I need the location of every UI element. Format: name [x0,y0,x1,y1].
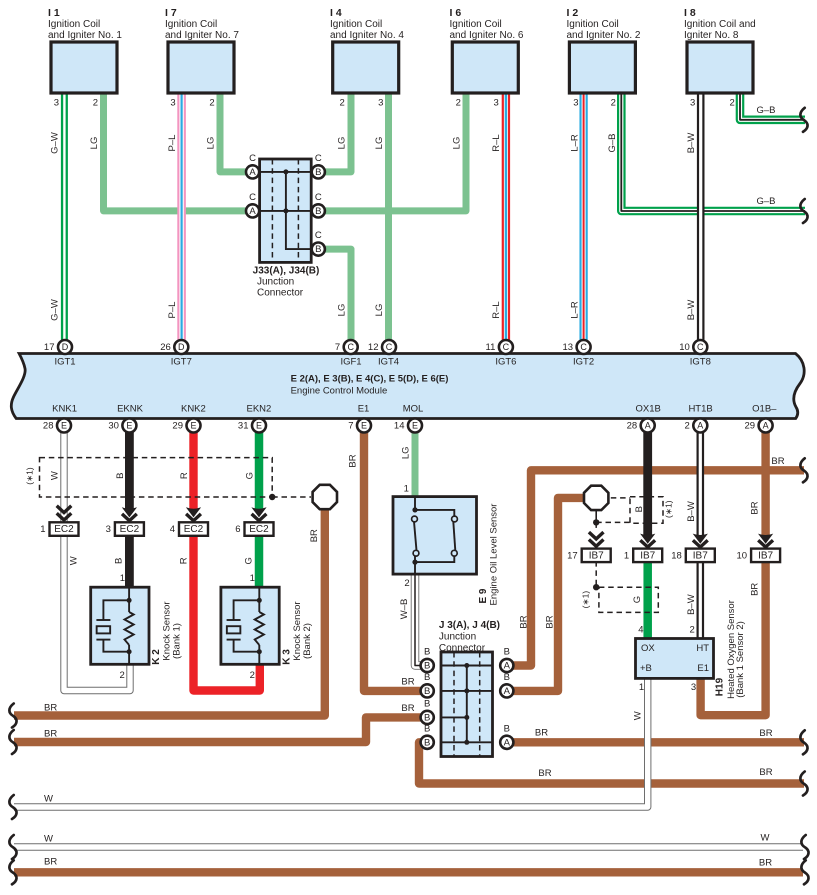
svg-text:B: B [315,167,321,178]
svg-text:E1: E1 [358,404,370,415]
svg-text:EC2: EC2 [184,524,204,535]
svg-text:B: B [424,712,430,723]
svg-text:H19: H19 [714,677,725,696]
svg-text:C: C [249,153,256,164]
svg-text:HT: HT [696,643,709,654]
svg-text:B: B [424,686,430,697]
svg-text:BR: BR [545,615,556,628]
svg-text:B: B [115,473,126,479]
svg-text:and Igniter No. 1: and Igniter No. 1 [48,30,122,41]
svg-text:EKNK: EKNK [117,404,144,415]
svg-text:LG: LG [374,137,385,150]
svg-text:A: A [249,206,256,217]
svg-text:LG: LG [206,137,217,150]
svg-text:IGT8: IGT8 [690,356,711,367]
svg-text:28: 28 [627,421,638,432]
svg-text:3: 3 [170,98,175,109]
svg-text:E: E [256,420,262,430]
svg-text:L–R: L–R [570,301,581,319]
svg-text:and Igniter No. 2: and Igniter No. 2 [567,30,641,41]
svg-text:and Igniter No. 4: and Igniter No. 4 [330,30,404,41]
svg-text:C: C [315,230,322,241]
svg-text:G: G [632,596,643,603]
svg-text:Ignition Coil: Ignition Coil [165,19,217,30]
svg-text:3: 3 [378,98,383,109]
svg-text:LG: LG [89,137,100,150]
svg-text:10: 10 [679,342,690,353]
svg-text:2: 2 [209,98,214,109]
svg-text:3: 3 [691,682,696,693]
svg-text:J33(A), J34(B): J33(A), J34(B) [253,265,320,276]
svg-text:Ignition Coil and: Ignition Coil and [684,19,756,30]
svg-text:EKN2: EKN2 [246,404,271,415]
svg-text:18: 18 [671,550,682,561]
svg-text:IB7: IB7 [640,551,655,562]
svg-text:BR: BR [749,501,760,514]
svg-text:2: 2 [93,98,98,109]
svg-text:D: D [178,342,185,352]
svg-text:17: 17 [567,550,578,561]
svg-text:G–B: G–B [607,133,618,152]
svg-text:A: A [504,686,511,697]
svg-text:BR: BR [771,456,784,467]
svg-text:C: C [503,342,510,352]
svg-text:BR: BR [519,615,530,628]
svg-text:14: 14 [394,421,405,432]
svg-text:B: B [113,558,124,564]
svg-text:IGT7: IGT7 [171,356,192,367]
svg-text:4: 4 [638,625,643,636]
svg-text:E 2(A), E 3(B), E 4(C), E 5(D): E 2(A), E 3(B), E 4(C), E 5(D), E 6(E) [291,373,449,384]
svg-text:2: 2 [250,670,255,681]
svg-text:Igniter No. 8: Igniter No. 8 [684,30,739,41]
svg-text:IGT6: IGT6 [495,356,516,367]
svg-text:BR: BR [535,728,548,739]
svg-text:(Bank 1): (Bank 1) [172,623,183,659]
svg-text:BR: BR [309,529,320,542]
svg-text:B: B [424,672,430,683]
svg-text:B: B [424,723,430,734]
svg-text:W: W [632,711,643,720]
svg-text:A: A [645,420,651,430]
svg-text:B: B [504,672,510,683]
svg-text:+B: +B [640,663,652,674]
svg-text:BR: BR [44,729,57,740]
svg-text:R: R [178,557,189,564]
svg-text:L–R: L–R [570,134,581,152]
svg-text:G: G [244,557,255,564]
svg-text:Connector: Connector [257,287,304,298]
svg-text:1: 1 [624,550,629,561]
svg-text:BR: BR [44,857,57,868]
svg-text:B: B [315,206,321,217]
svg-text:E1: E1 [697,663,709,674]
svg-text:A: A [504,737,511,748]
svg-text:29: 29 [172,421,183,432]
svg-text:B–W: B–W [686,501,697,522]
svg-text:Engine Oil Level Sensor: Engine Oil Level Sensor [489,504,500,606]
svg-text:1: 1 [120,573,125,584]
svg-text:1: 1 [250,573,255,584]
svg-text:Junction: Junction [439,631,476,642]
svg-text:28: 28 [43,421,54,432]
svg-text:2: 2 [120,670,125,681]
svg-text:7: 7 [335,342,340,353]
svg-text:I 7: I 7 [165,7,177,19]
svg-text:and Igniter No. 7: and Igniter No. 7 [165,30,239,41]
svg-text:IGT2: IGT2 [573,356,594,367]
svg-text:7: 7 [348,421,353,432]
svg-text:B: B [504,647,510,658]
svg-text:J 3(A), J 4(B): J 3(A), J 4(B) [439,620,500,631]
svg-text:BR: BR [759,728,772,739]
svg-text:B: B [504,723,510,734]
svg-text:KNK1: KNK1 [52,404,77,415]
svg-text:3: 3 [573,98,578,109]
svg-text:1: 1 [404,484,409,495]
svg-text:IGF1: IGF1 [340,356,361,367]
svg-text:2: 2 [685,421,690,432]
svg-text:W: W [44,794,53,805]
svg-text:BR: BR [759,857,772,868]
svg-text:Ignition Coil: Ignition Coil [450,19,502,30]
svg-text:E: E [412,420,418,430]
svg-text:BR: BR [44,703,57,714]
svg-text:BR: BR [538,768,551,779]
svg-text:D: D [62,342,69,352]
svg-text:B: B [634,506,645,512]
svg-text:29: 29 [745,421,756,432]
svg-text:BR: BR [749,583,760,596]
svg-text:(∗1): (∗1) [664,500,674,518]
svg-text:W–B: W–B [399,599,410,620]
svg-text:IB7: IB7 [693,551,708,562]
svg-text:E: E [61,420,67,430]
svg-text:(Bank 1 Sensor 2): (Bank 1 Sensor 2) [735,621,746,698]
svg-text:G–B: G–B [756,196,775,207]
svg-text:C: C [347,342,354,352]
svg-text:G–B: G–B [756,105,775,116]
svg-text:26: 26 [160,342,171,353]
svg-text:6: 6 [235,524,240,535]
svg-text:EC2: EC2 [120,524,140,535]
svg-text:C: C [249,192,256,203]
svg-text:2: 2 [456,98,461,109]
svg-text:OX1B: OX1B [636,404,661,415]
svg-text:K 3: K 3 [281,649,292,665]
svg-text:A: A [504,661,511,672]
svg-text:1: 1 [639,682,644,693]
svg-text:BR: BR [759,767,772,778]
svg-text:A: A [697,420,703,430]
svg-text:12: 12 [368,342,379,353]
svg-text:KNK2: KNK2 [181,404,206,415]
svg-text:I 6: I 6 [450,7,462,19]
svg-text:K 2: K 2 [151,649,162,665]
svg-text:Connector: Connector [439,643,486,654]
svg-text:LG: LG [374,304,385,317]
svg-text:R: R [179,472,190,479]
svg-text:W: W [50,471,61,480]
svg-text:LG: LG [452,137,463,150]
svg-text:G–W: G–W [50,132,61,154]
svg-text:E 9: E 9 [478,588,489,603]
svg-text:W: W [44,834,53,845]
svg-text:(∗1): (∗1) [24,467,34,485]
svg-text:IB7: IB7 [589,551,604,562]
svg-text:3: 3 [106,524,111,535]
svg-text:R–L: R–L [491,301,502,318]
svg-text:Engine Control Module: Engine Control Module [291,386,388,397]
svg-text:3: 3 [690,98,695,109]
svg-text:and Igniter No. 6: and Igniter No. 6 [450,30,524,41]
svg-text:(Bank 2): (Bank 2) [302,623,313,659]
svg-text:E: E [126,420,132,430]
svg-text:O1B–: O1B– [752,404,777,415]
svg-text:17: 17 [44,342,55,353]
svg-text:Ignition Coil: Ignition Coil [567,19,619,30]
svg-text:B: B [315,244,321,255]
svg-text:C: C [697,342,704,352]
svg-text:LG: LG [400,446,411,459]
svg-text:2: 2 [729,98,734,109]
svg-text:3: 3 [54,98,59,109]
svg-text:I 2: I 2 [567,7,579,19]
svg-text:LG: LG [337,137,348,150]
svg-text:BR: BR [401,703,414,714]
svg-text:I 8: I 8 [684,7,696,19]
svg-text:W: W [69,556,80,565]
svg-text:(∗1): (∗1) [581,591,591,609]
svg-text:I 1: I 1 [48,7,60,19]
svg-text:B–W: B–W [686,300,697,321]
svg-text:OX: OX [641,643,655,654]
svg-text:P–L: P–L [167,135,178,152]
svg-text:B: B [424,698,430,709]
svg-text:1: 1 [40,524,45,535]
svg-text:G–W: G–W [50,299,61,321]
svg-text:A: A [763,420,769,430]
svg-text:W: W [761,832,770,843]
svg-text:13: 13 [563,342,574,353]
svg-text:2: 2 [404,578,409,589]
svg-text:EC2: EC2 [249,524,269,535]
svg-text:10: 10 [737,550,748,561]
svg-text:B–W: B–W [686,594,697,615]
svg-text:C: C [315,153,322,164]
svg-text:G: G [245,472,256,479]
svg-text:Ignition Coil: Ignition Coil [330,19,382,30]
svg-text:MOL: MOL [403,404,424,415]
svg-text:BR: BR [348,454,359,467]
svg-text:2: 2 [690,625,695,636]
svg-text:3: 3 [494,98,499,109]
svg-text:C: C [315,192,322,203]
svg-text:B: B [424,737,430,748]
svg-text:2: 2 [340,98,345,109]
svg-text:C: C [580,342,587,352]
svg-text:IGT4: IGT4 [378,356,399,367]
svg-text:31: 31 [238,421,249,432]
svg-text:HT1B: HT1B [688,404,712,415]
svg-text:EC2: EC2 [54,524,74,535]
svg-text:C: C [386,342,393,352]
svg-text:BR: BR [401,677,414,688]
svg-text:11: 11 [486,342,496,353]
svg-text:LG: LG [337,304,348,317]
svg-text:Junction: Junction [257,276,294,287]
svg-text:B–W: B–W [686,133,697,154]
svg-text:E: E [190,420,196,430]
svg-text:2: 2 [611,98,616,109]
svg-text:30: 30 [108,421,119,432]
svg-text:4: 4 [170,524,175,535]
svg-text:Ignition Coil: Ignition Coil [48,19,100,30]
svg-text:A: A [249,167,256,178]
svg-text:R–L: R–L [491,134,502,151]
svg-text:B: B [424,647,430,658]
svg-text:IGT1: IGT1 [54,356,75,367]
svg-text:P–L: P–L [167,302,178,319]
svg-text:B: B [424,661,430,672]
svg-text:IB7: IB7 [758,551,773,562]
svg-text:E: E [361,420,367,430]
svg-text:I 4: I 4 [330,7,342,19]
